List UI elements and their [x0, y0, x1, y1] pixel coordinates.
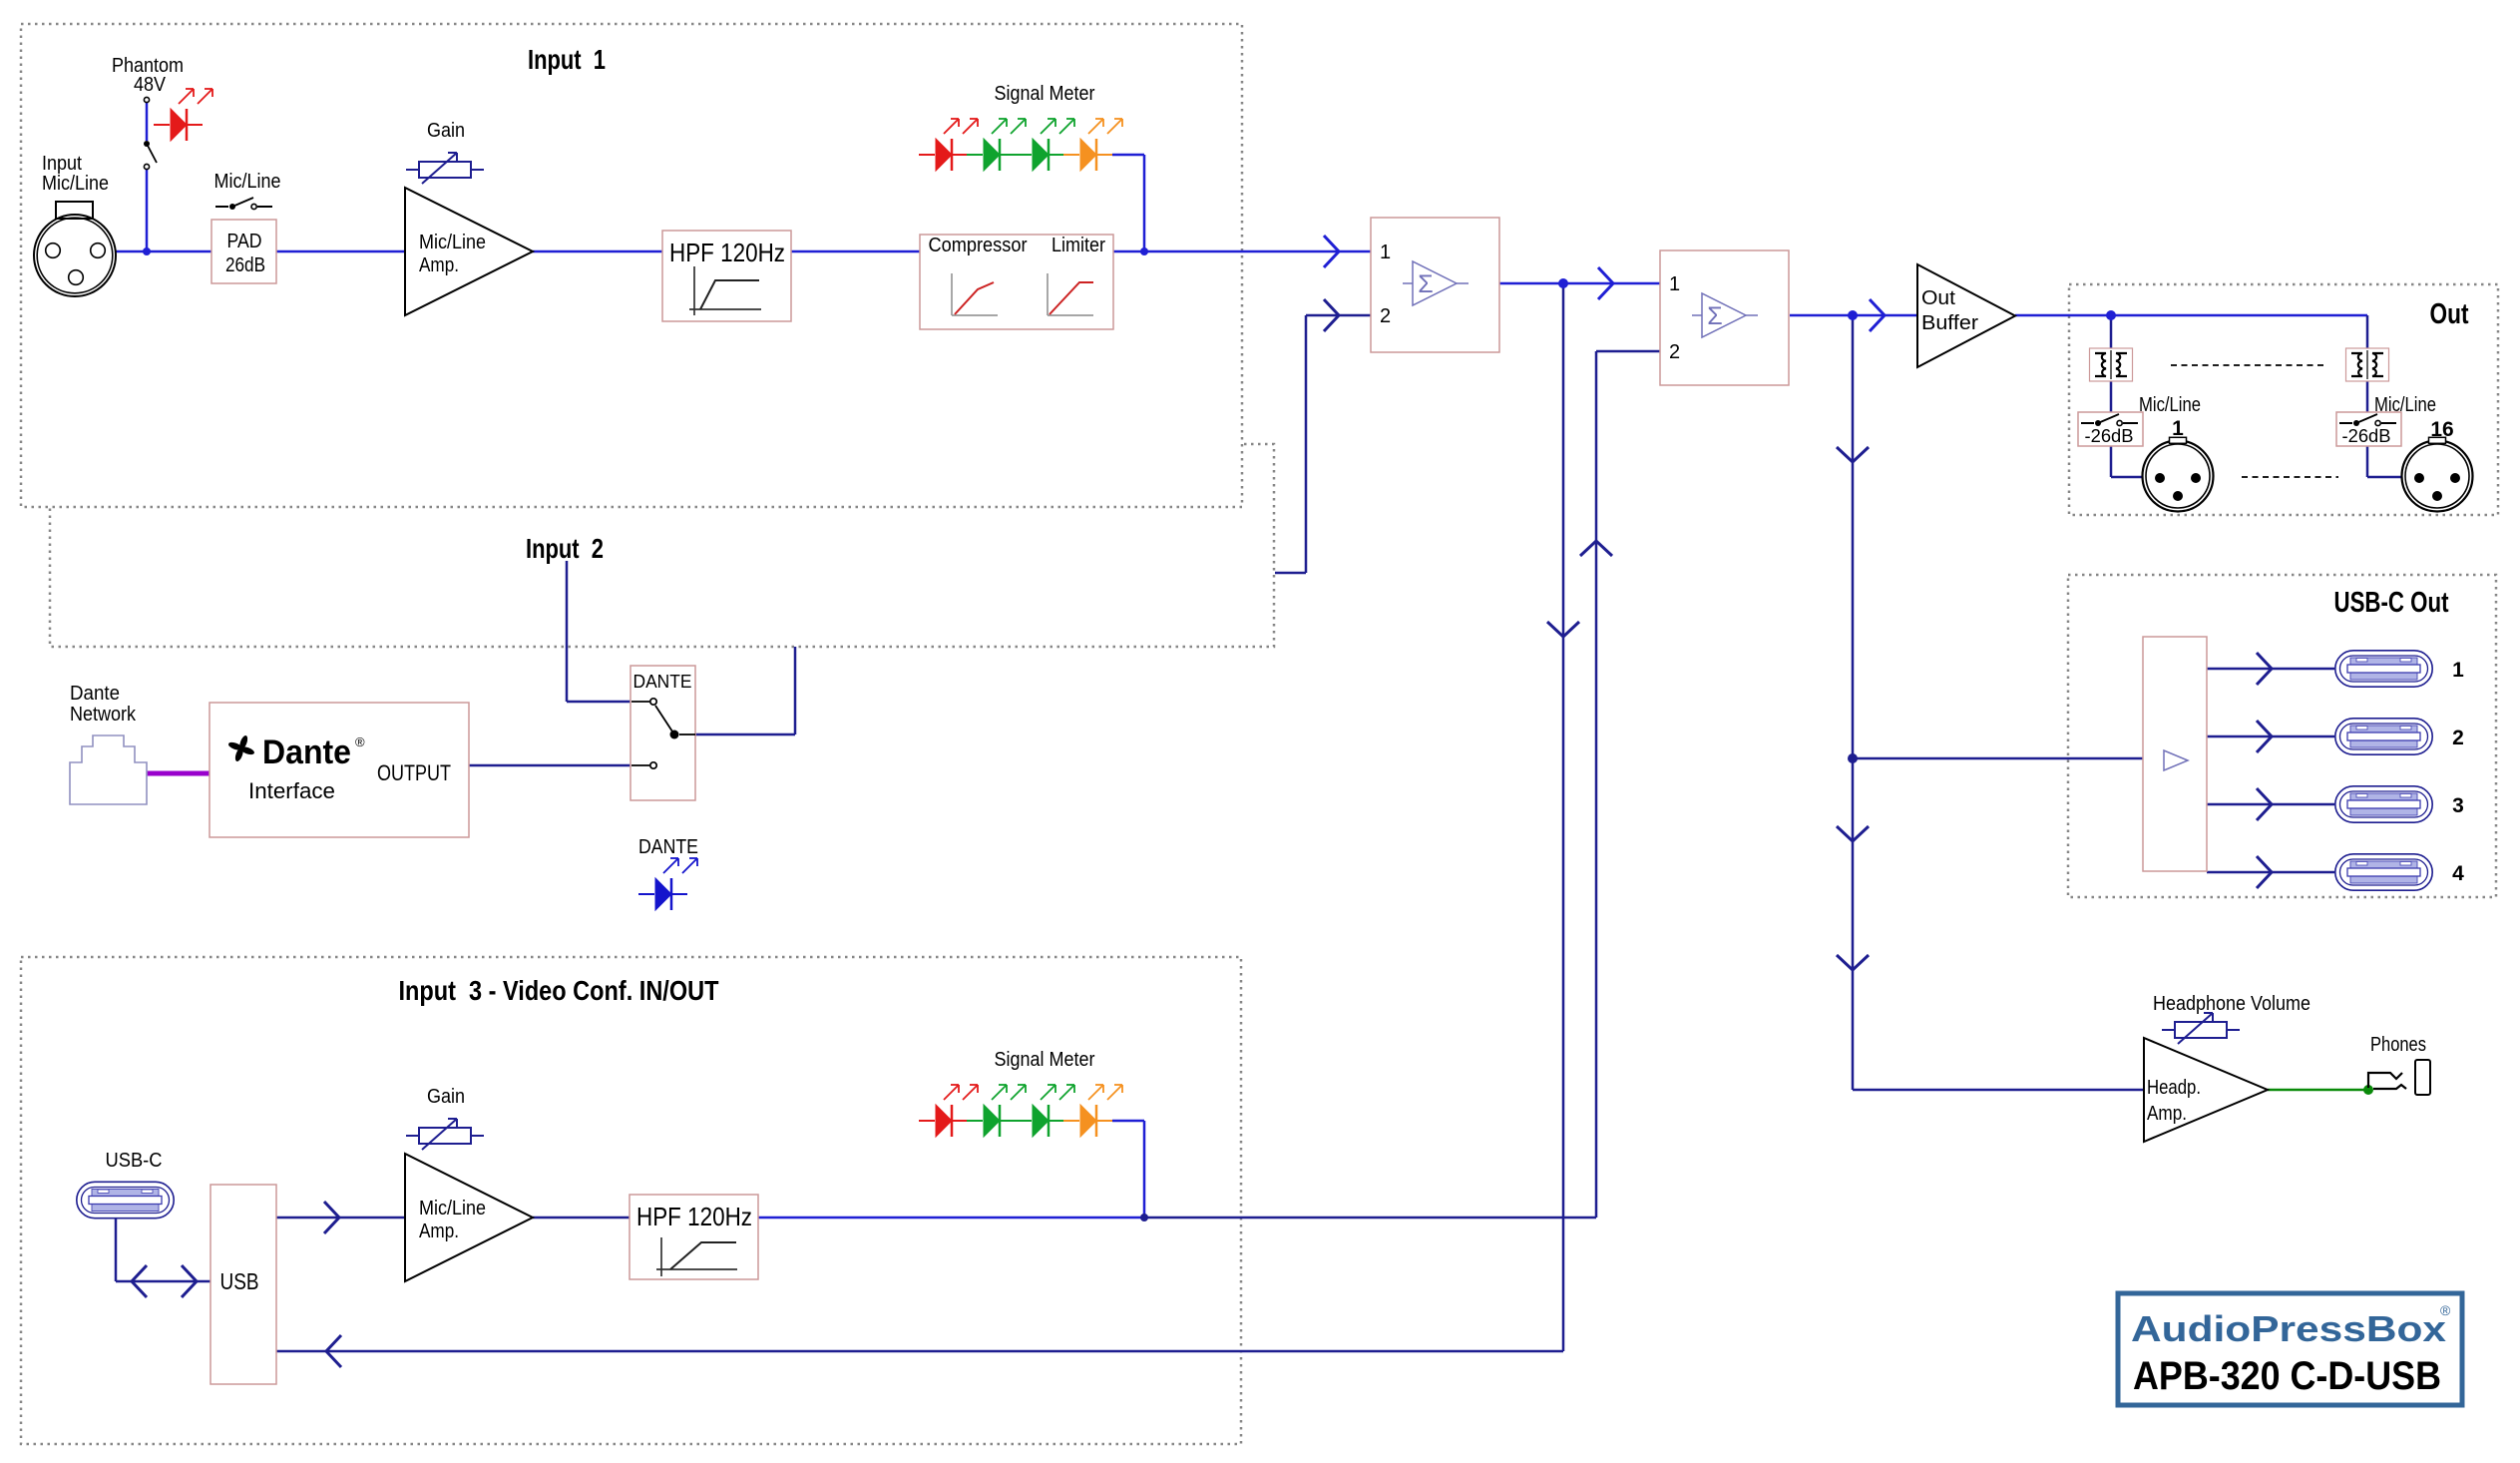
svg-text:Amp.: Amp. [419, 254, 459, 276]
svg-text:Limiter: Limiter [1051, 235, 1105, 256]
svg-text:2: 2 [1380, 305, 1391, 327]
svg-text:HPF 120Hz: HPF 120Hz [669, 238, 785, 267]
svg-text:USB-C: USB-C [106, 1150, 163, 1172]
svg-text:-26dB: -26dB [2085, 426, 2134, 446]
svg-text:Input 1: Input 1 [528, 44, 606, 75]
svg-text:Headp.: Headp. [2147, 1077, 2201, 1099]
svg-text:Signal Meter: Signal Meter [995, 1049, 1095, 1071]
svg-text:Dante: Dante [70, 683, 120, 705]
svg-text:4: 4 [2452, 862, 2464, 885]
svg-text:2: 2 [2452, 727, 2464, 749]
svg-text:®: ® [2440, 1302, 2451, 1318]
svg-text:APB-320 C-D-USB: APB-320 C-D-USB [2133, 1354, 2441, 1398]
svg-text:HPF 120Hz: HPF 120Hz [636, 1202, 752, 1231]
svg-text:DANTE: DANTE [633, 672, 692, 692]
svg-text:Input: Input [42, 153, 82, 175]
svg-text:Buffer: Buffer [1921, 312, 1978, 334]
svg-text:PAD: PAD [227, 231, 262, 252]
svg-text:Compressor: Compressor [929, 235, 1028, 256]
svg-text:Mic/Line: Mic/Line [42, 173, 109, 195]
svg-text:Dante: Dante [262, 733, 351, 771]
svg-text:DANTE: DANTE [638, 836, 698, 858]
svg-text:®: ® [355, 734, 365, 749]
svg-text:Out: Out [1921, 287, 1955, 309]
svg-text:USB-C Out: USB-C Out [2334, 587, 2449, 619]
svg-text:-26dB: -26dB [2342, 426, 2391, 446]
svg-text:Phones: Phones [2370, 1034, 2426, 1056]
svg-text:Gain: Gain [427, 120, 465, 142]
svg-text:48V: 48V [134, 74, 167, 96]
svg-text:Σ: Σ [1418, 270, 1433, 298]
svg-text:Out: Out [2430, 298, 2469, 330]
svg-text:Interface: Interface [248, 778, 335, 803]
svg-text:Input 3 - Video Conf. IN/OUT: Input 3 - Video Conf. IN/OUT [399, 975, 719, 1006]
svg-text:Amp.: Amp. [419, 1220, 459, 1242]
svg-text:Mic/Line: Mic/Line [2139, 394, 2201, 416]
svg-text:Gain: Gain [427, 1086, 465, 1108]
svg-text:USB: USB [220, 1268, 259, 1294]
svg-text:Headphone Volume: Headphone Volume [2153, 993, 2310, 1015]
svg-text:AudioPressBox: AudioPressBox [2131, 1308, 2446, 1349]
svg-text:Mic/Line: Mic/Line [214, 171, 281, 193]
svg-text:Mic/Line: Mic/Line [419, 1198, 486, 1219]
svg-text:Network: Network [70, 704, 137, 726]
svg-text:Σ: Σ [1707, 302, 1722, 330]
svg-text:Input 2: Input 2 [526, 533, 604, 564]
svg-text:26dB: 26dB [225, 254, 265, 276]
svg-text:1: 1 [2452, 659, 2464, 682]
svg-text:3: 3 [2452, 794, 2464, 817]
svg-text:Mic/Line: Mic/Line [419, 232, 486, 253]
svg-text:OUTPUT: OUTPUT [377, 760, 451, 785]
svg-text:2: 2 [1669, 341, 1680, 363]
svg-text:Signal Meter: Signal Meter [995, 83, 1095, 105]
svg-text:Amp.: Amp. [2147, 1103, 2187, 1125]
svg-text:1: 1 [1669, 273, 1680, 295]
svg-text:1: 1 [1380, 242, 1391, 263]
